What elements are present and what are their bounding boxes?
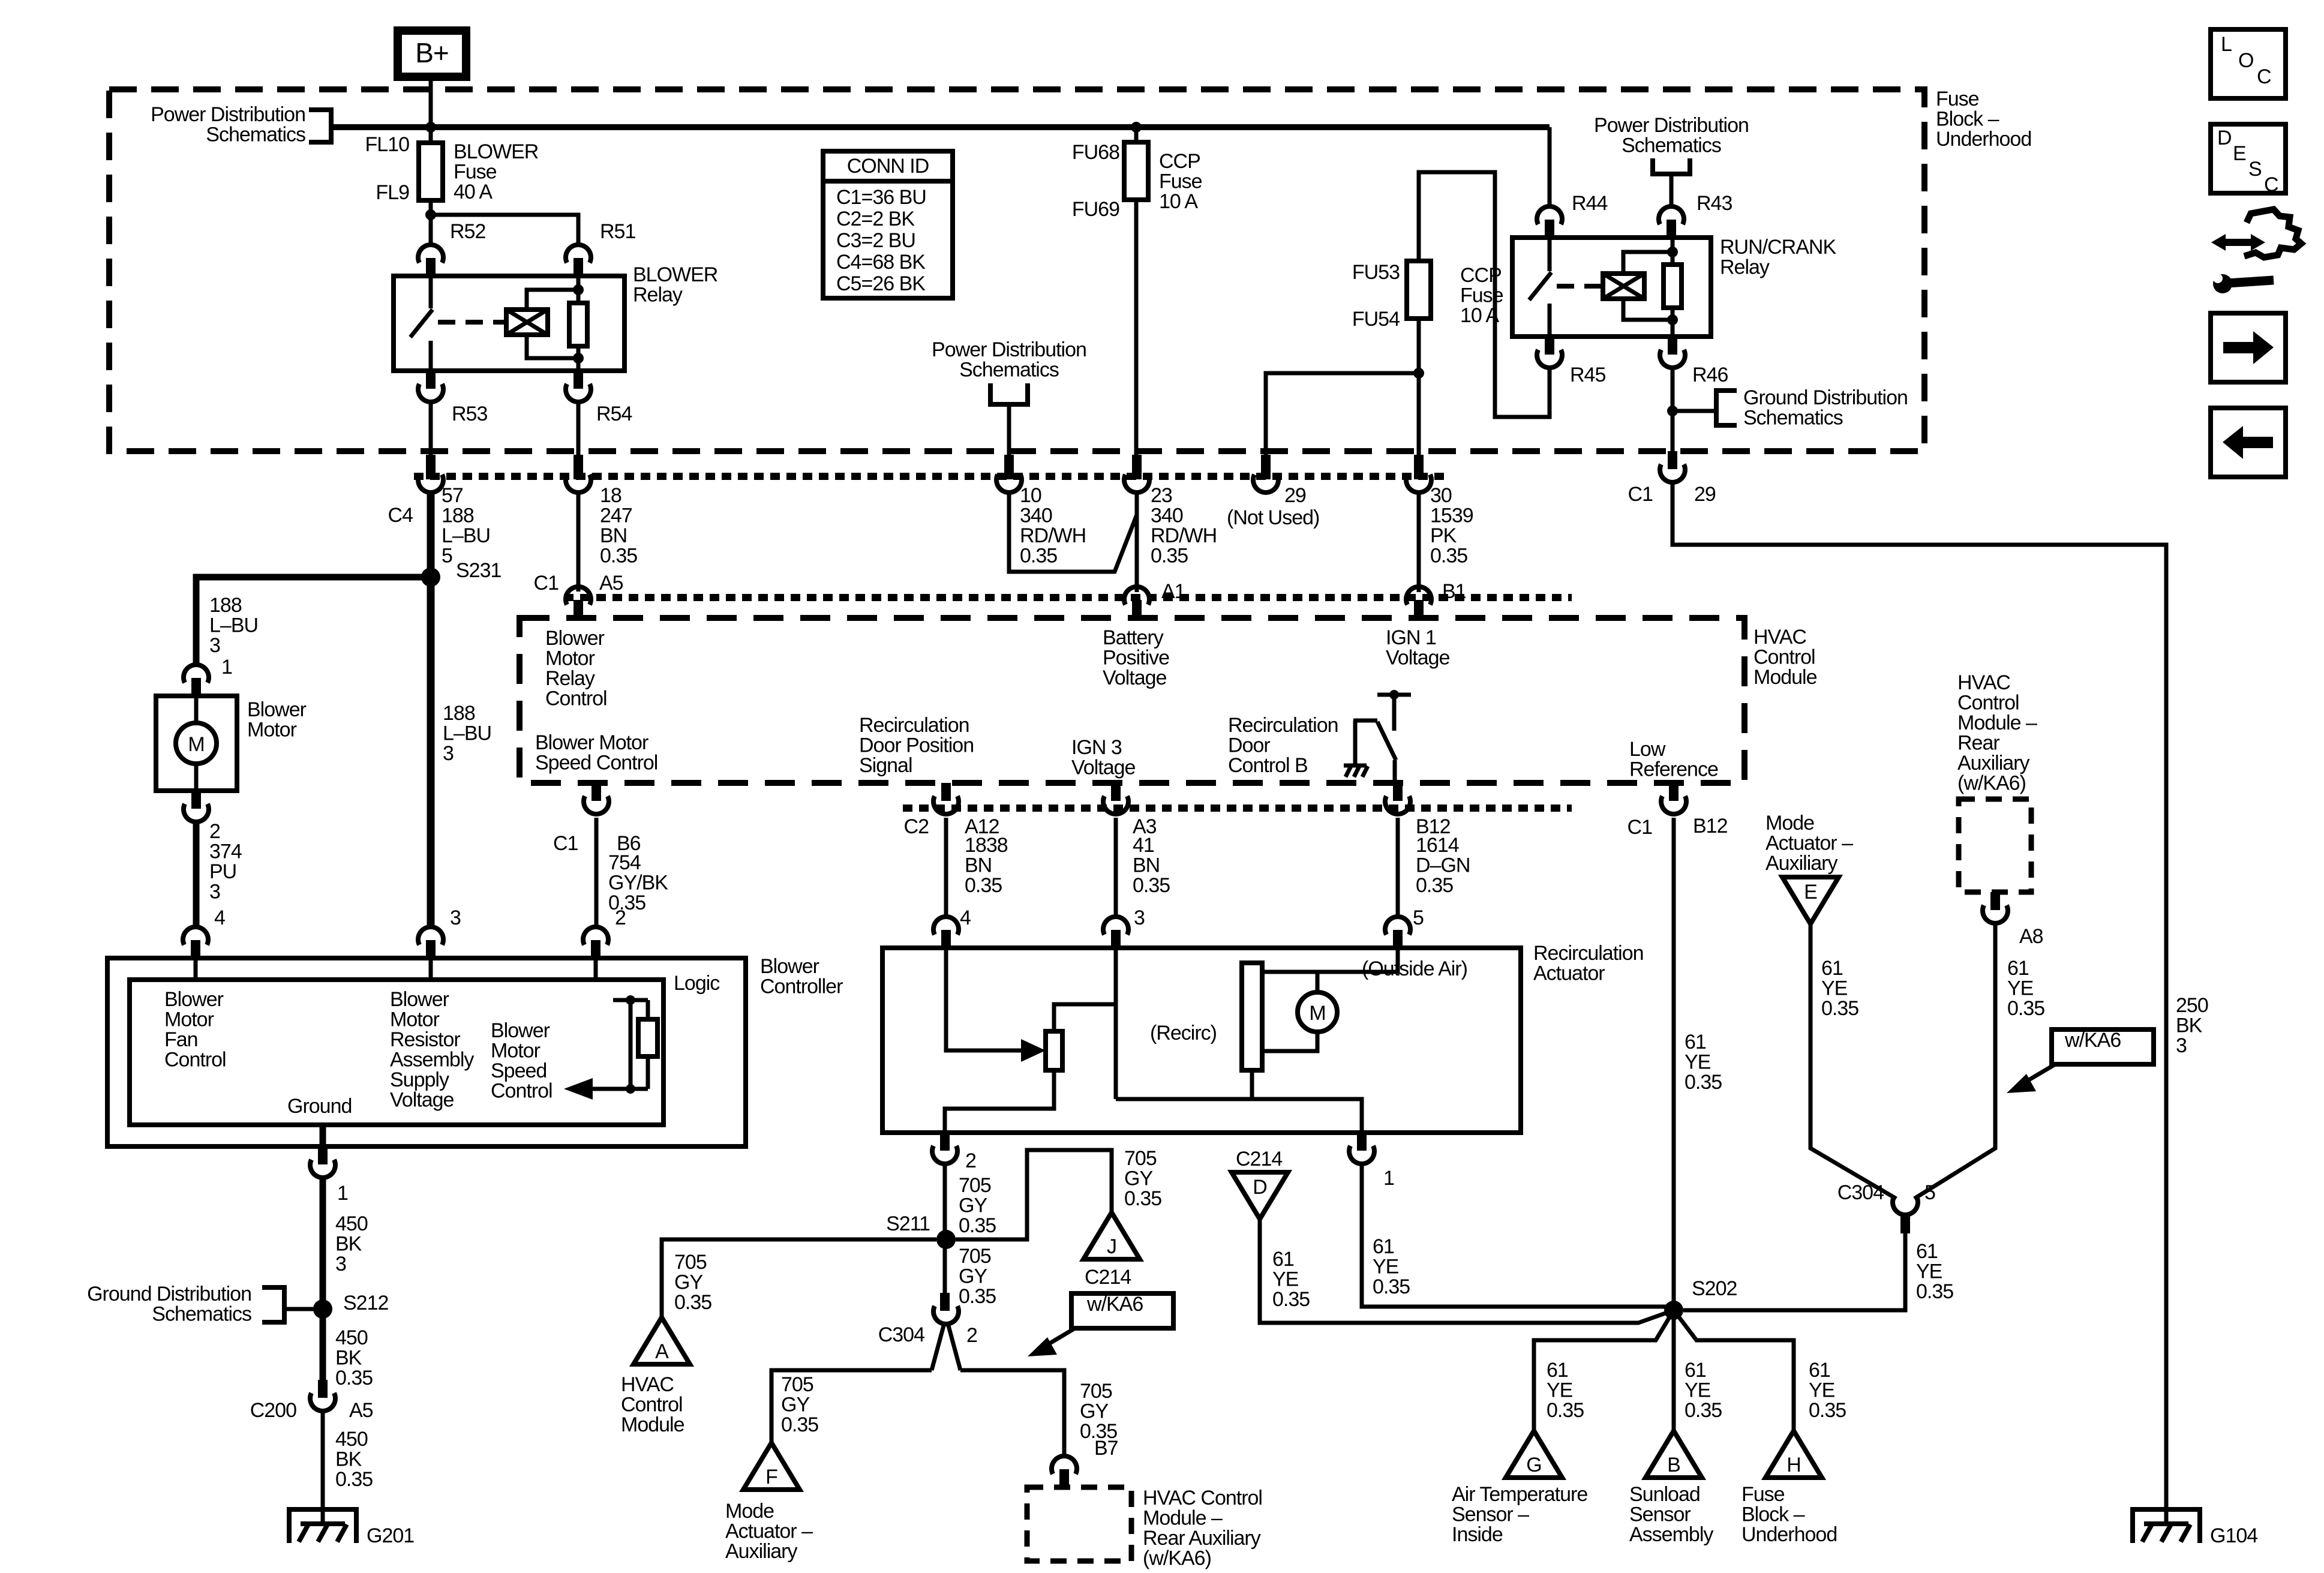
CONN ID table: [823, 151, 953, 298]
svg-text:S212: S212: [343, 1292, 388, 1314]
svg-text:1: 1: [1383, 1167, 1394, 1190]
svg-text:G104: G104: [2210, 1524, 2257, 1547]
svg-text:0.35: 0.35: [1685, 1071, 1722, 1094]
svg-text:R53: R53: [452, 403, 487, 425]
connector C1 pin 29 and 250 BK 3 to G104: [1668, 451, 1677, 469]
recirculation door control B driver switch: [1377, 693, 1411, 697]
junction switch T-bar: [1389, 690, 1399, 700]
svg-text:Relay: Relay: [1720, 256, 1770, 279]
wire C304-5 to S202: [1683, 1233, 1905, 1310]
svg-text:BK: BK: [2176, 1014, 2203, 1037]
sidebar icon LOC: [2211, 29, 2286, 98]
connector C200 A5: [318, 1380, 328, 1398]
svg-text:CCP: CCP: [1460, 264, 1502, 287]
junction blower fuse split: [425, 209, 436, 220]
svg-text:340: 340: [1020, 505, 1052, 527]
blower motor: [156, 696, 237, 791]
svg-text:Schematics: Schematics: [206, 124, 305, 146]
connector C2 B12: [1393, 783, 1403, 801]
svg-text:29: 29: [1694, 483, 1716, 506]
svg-text:61: 61: [1821, 957, 1843, 980]
wire to pin 29: [1266, 373, 1419, 455]
connector recirc pin 1: [1357, 1133, 1367, 1151]
svg-text:R45: R45: [1570, 364, 1605, 386]
svg-text:Supply: Supply: [390, 1068, 449, 1091]
svg-text:RD/WH: RD/WH: [1151, 524, 1217, 547]
connector R45: [1545, 337, 1554, 355]
ground G201: [289, 1509, 356, 1543]
svg-text:Blower: Blower: [760, 955, 819, 978]
svg-text:705: 705: [781, 1373, 813, 1396]
svg-text:Control: Control: [621, 1394, 683, 1416]
svg-text:2: 2: [209, 820, 220, 843]
connector R51: [566, 245, 591, 263]
connector controller pin 3: [418, 927, 443, 945]
svg-text:Schematics: Schematics: [959, 359, 1059, 382]
svg-text:Actuator –: Actuator –: [725, 1520, 813, 1543]
connector HVAC B1: [1406, 587, 1431, 605]
svg-text:705: 705: [1124, 1147, 1157, 1170]
connector C2 pin 30: [1414, 455, 1424, 479]
svg-text:(Outside Air): (Outside Air): [1362, 957, 1467, 980]
svg-text:(Not Used): (Not Used): [1227, 506, 1319, 529]
svg-text:61: 61: [1916, 1240, 1938, 1263]
svg-text:Rear Auxiliary: Rear Auxiliary: [1143, 1527, 1261, 1550]
wire C304-2 to B7: [960, 1370, 1064, 1456]
svg-text:BK: BK: [335, 1448, 362, 1471]
HVAC control module rear auxiliary dashed box (bottom): [1027, 1487, 1131, 1561]
w/KA6 flag (left): [1071, 1293, 1173, 1328]
svg-text:5: 5: [1413, 906, 1424, 929]
svg-text:0.35: 0.35: [1809, 1399, 1846, 1422]
connector C2 pin 10: [1004, 455, 1014, 479]
svg-text:Sensor –: Sensor –: [1452, 1503, 1529, 1526]
svg-text:3: 3: [443, 742, 454, 765]
svg-text:0.35: 0.35: [1430, 545, 1467, 568]
svg-text:Relay: Relay: [633, 284, 683, 307]
svg-text:10 A: 10 A: [1460, 304, 1499, 327]
wire pin1 to S202: [1362, 1164, 1674, 1307]
run/crank relay switch: [1548, 238, 1552, 271]
RUN/CRANK relay: [1512, 238, 1711, 337]
svg-text:23: 23: [1151, 484, 1172, 507]
svg-text:705: 705: [1080, 1380, 1112, 1403]
wire S231 to blower motor: [196, 577, 431, 666]
svg-text:450: 450: [335, 1428, 368, 1451]
connector controller pin 2: [583, 927, 608, 945]
svg-text:Assembly: Assembly: [390, 1049, 474, 1071]
off-page connector D: [1232, 1172, 1288, 1219]
junction relay coil top: [573, 284, 584, 295]
wire 450 BK 0.35 to G201: [321, 1411, 325, 1524]
svg-text:188: 188: [442, 505, 474, 527]
svg-text:340: 340: [1151, 505, 1183, 527]
junction relay coil bottom: [573, 353, 584, 364]
svg-text:PU: PU: [209, 860, 236, 883]
svg-text:1539: 1539: [1430, 505, 1473, 527]
connector R53: [426, 371, 436, 389]
svg-text:S211: S211: [886, 1212, 930, 1235]
svg-text:Control: Control: [1753, 646, 1815, 669]
svg-text:188: 188: [209, 594, 242, 617]
svg-text:Auxiliary: Auxiliary: [1765, 852, 1837, 875]
connector C2 A12: [941, 783, 951, 801]
recirc potentiometer: [1046, 1031, 1062, 1070]
connector recirc pin 2: [940, 1133, 950, 1151]
svg-text:GY: GY: [781, 1394, 809, 1416]
run/crank relay coil drive dashed link: [1557, 284, 1603, 289]
svg-text:18: 18: [600, 484, 621, 507]
wire S211 to A: [662, 1239, 936, 1317]
off-page connector G: [1506, 1431, 1562, 1478]
svg-text:2: 2: [615, 906, 626, 929]
svg-text:Voltage: Voltage: [1071, 757, 1136, 779]
svg-text:0.35: 0.35: [965, 874, 1002, 897]
off-page connector H: [1765, 1431, 1822, 1478]
svg-text:FU54: FU54: [1352, 308, 1400, 331]
svg-text:R52: R52: [450, 220, 485, 243]
svg-text:BN: BN: [965, 854, 992, 877]
svg-text:R46: R46: [1692, 364, 1728, 386]
svg-text:RUN/CRANK: RUN/CRANK: [1720, 236, 1836, 259]
fuse block underhood dashed box: [109, 89, 1924, 451]
svg-text:R51: R51: [600, 220, 635, 243]
svg-text:GY: GY: [959, 1265, 987, 1288]
svg-text:Blower: Blower: [247, 698, 307, 721]
splice S212: [313, 1299, 332, 1319]
wire C304-2 to F: [771, 1370, 932, 1443]
svg-text:BN: BN: [1133, 854, 1160, 877]
svg-text:R54: R54: [596, 403, 632, 425]
svg-text:C200: C200: [250, 1399, 296, 1422]
svg-text:1838: 1838: [965, 834, 1008, 857]
connector row C4/C1/C2 (fuse block bottom, dotted): [414, 473, 1446, 480]
ground G104: [2133, 1509, 2200, 1543]
svg-text:Control: Control: [1957, 692, 2019, 715]
svg-text:Block –: Block –: [1936, 108, 1999, 131]
connector row HVAC C1 (dotted): [564, 594, 1572, 601]
svg-text:Fuse: Fuse: [1742, 1483, 1785, 1506]
svg-text:29: 29: [1284, 484, 1306, 507]
fuse BLOWER Fuse 40A (FL10/FL9): [419, 143, 443, 200]
svg-text:0.35: 0.35: [1821, 997, 1858, 1020]
controller ground pin: [320, 1125, 326, 1146]
svg-text:L–BU: L–BU: [442, 524, 490, 547]
svg-text:Speed: Speed: [491, 1059, 547, 1082]
svg-text:A5: A5: [349, 1399, 373, 1422]
svg-text:Reference: Reference: [1629, 758, 1718, 781]
splice S202: [1664, 1301, 1683, 1320]
svg-text:A8: A8: [2019, 925, 2043, 948]
wire B+ to bus: [429, 77, 433, 127]
svg-text:B1: B1: [1442, 580, 1466, 603]
wire power bus: [331, 124, 1550, 130]
blower relay: [394, 276, 624, 371]
run/crank relay coil/resistor links: [1623, 252, 1673, 320]
svg-text:C2=2 BK: C2=2 BK: [836, 208, 915, 230]
svg-text:1614: 1614: [1416, 834, 1459, 857]
svg-text:Air Temperature: Air Temperature: [1452, 1483, 1587, 1506]
wire 57 trunk to controller pin 3: [427, 492, 435, 927]
svg-text:Fuse: Fuse: [1159, 170, 1202, 193]
svg-text:YE: YE: [1685, 1379, 1711, 1402]
wire A12 to recirc pin 4: [944, 818, 948, 917]
fuse CCP Fuse 10A (FU53/FU54): [1407, 261, 1431, 319]
connector row HVAC C2/C1 bottom (dotted): [903, 804, 1572, 812]
connector HVAC A1: [1124, 587, 1149, 605]
svg-text:L–BU: L–BU: [443, 722, 491, 745]
svg-text:0.35: 0.35: [674, 1291, 711, 1314]
svg-text:A: A: [655, 1340, 669, 1363]
off-page connector J: [1083, 1212, 1140, 1259]
svg-text:4: 4: [960, 906, 971, 929]
svg-text:S231: S231: [456, 559, 501, 582]
svg-text:YE: YE: [1685, 1051, 1711, 1074]
svg-text:Auxiliary: Auxiliary: [1957, 752, 2029, 775]
svg-text:(w/KA6): (w/KA6): [1957, 772, 2026, 795]
connector C304 pin 2 (splitting Y): [940, 1293, 950, 1311]
wire pin2 to S211/C304: [943, 1164, 947, 1293]
blower relay coil/resistor links: [527, 290, 578, 358]
svg-text:Recirculation: Recirculation: [1533, 942, 1644, 965]
svg-text:705: 705: [959, 1174, 991, 1197]
svg-text:0.35: 0.35: [1916, 1280, 1953, 1303]
wire A3 to recirc pin 3: [1114, 818, 1118, 917]
svg-text:3: 3: [335, 1253, 346, 1275]
wire branch to R51: [431, 215, 578, 245]
svg-text:Control: Control: [164, 1049, 226, 1071]
HVAC control module dashed box: [520, 618, 1744, 783]
connector blower motor pin 2: [191, 791, 201, 809]
connector blower motor pin 1: [184, 665, 209, 683]
wire 30 to B1: [1417, 492, 1421, 592]
svg-text:C1=36 BU: C1=36 BU: [836, 186, 926, 209]
run/crank relay coil: [1603, 274, 1644, 299]
svg-text:0.35: 0.35: [1685, 1399, 1722, 1422]
svg-text:O: O: [2238, 49, 2253, 72]
blower relay switch: [429, 276, 433, 308]
svg-text:FL9: FL9: [376, 181, 409, 204]
svg-text:61: 61: [2007, 957, 2029, 980]
svg-text:247: 247: [600, 505, 632, 527]
svg-text:E: E: [1804, 881, 1817, 903]
svg-text:5: 5: [1924, 1181, 1935, 1204]
svg-text:M: M: [188, 733, 204, 756]
svg-text:C214: C214: [1236, 1148, 1282, 1170]
svg-text:FU68: FU68: [1072, 141, 1119, 164]
switch blade: [1377, 722, 1396, 760]
svg-text:2: 2: [965, 1149, 976, 1172]
svg-text:B7: B7: [1094, 1437, 1118, 1460]
svg-text:Signal: Signal: [859, 754, 912, 777]
svg-text:Ground: Ground: [287, 1095, 352, 1118]
svg-text:BK: BK: [335, 1233, 362, 1256]
svg-text:30: 30: [1430, 484, 1452, 507]
svg-text:H: H: [1786, 1454, 1801, 1476]
bracket Power Distribution Schematics (right): [1653, 158, 1690, 174]
svg-text:G201: G201: [367, 1524, 414, 1547]
svg-text:R44: R44: [1572, 192, 1607, 215]
svg-text:S: S: [2248, 158, 2262, 181]
svg-text:Fuse: Fuse: [1460, 284, 1503, 307]
svg-text:YE: YE: [1272, 1268, 1299, 1291]
wire B6 to controller pin 2: [594, 818, 599, 927]
svg-text:(w/KA6): (w/KA6): [1143, 1547, 1211, 1570]
wire 18 to A5: [577, 492, 581, 592]
svg-text:Recirculation: Recirculation: [1228, 714, 1338, 737]
svg-text:BLOWER: BLOWER: [454, 140, 538, 163]
svg-text:41: 41: [1133, 834, 1154, 857]
svg-text:Positive: Positive: [1103, 647, 1169, 670]
svg-text:Power Distribution: Power Distribution: [932, 338, 1086, 361]
svg-text:Schematics: Schematics: [1622, 134, 1721, 157]
connector C1 pin 18: [574, 455, 583, 479]
off-page connector E: [1782, 877, 1839, 924]
svg-text:GY: GY: [959, 1194, 987, 1217]
svg-text:C1: C1: [534, 572, 559, 595]
svg-text:Sensor: Sensor: [1629, 1503, 1691, 1526]
wire tap to bracket: [1673, 409, 1714, 413]
svg-text:61: 61: [1373, 1235, 1394, 1258]
svg-text:Schematics: Schematics: [1743, 407, 1843, 430]
recirc motor M: [1262, 948, 1398, 972]
svg-text:G: G: [1526, 1454, 1541, 1476]
svg-text:Motor: Motor: [545, 647, 595, 670]
svg-text:C4: C4: [388, 504, 413, 527]
svg-text:Fuse: Fuse: [454, 161, 497, 184]
svg-text:Control: Control: [491, 1080, 553, 1103]
wire S211 to J: [956, 1150, 1112, 1239]
wire B12 to recirc pin 5: [1396, 818, 1400, 917]
connector R44: [1537, 206, 1562, 224]
svg-text:Logic: Logic: [674, 972, 720, 995]
svg-text:Blower: Blower: [545, 627, 605, 650]
wire FU69 to pin 23: [1134, 200, 1139, 455]
wire S202 to H: [1674, 1310, 1794, 1431]
svg-text:250: 250: [2176, 994, 2208, 1017]
recirc wiper feed + arrow: [946, 948, 1026, 1050]
svg-text:C1: C1: [553, 832, 578, 855]
svg-text:Control B: Control B: [1228, 754, 1308, 777]
svg-text:HVAC: HVAC: [1957, 671, 2010, 694]
svg-text:5: 5: [442, 545, 452, 568]
svg-text:CONN ID: CONN ID: [847, 155, 929, 178]
svg-text:Relay: Relay: [545, 667, 595, 690]
svg-text:0.35: 0.35: [1151, 545, 1188, 568]
blower relay resistor: [577, 276, 581, 371]
wire D to S202: [1260, 1219, 1674, 1323]
wire 250 BK 3 to G104: [1673, 482, 2166, 1524]
sidebar icon back arrow: [2211, 408, 2286, 477]
bracket Power Distribution Schematics (left): [309, 110, 331, 142]
svg-text:J: J: [1107, 1235, 1116, 1258]
svg-text:0.35: 0.35: [2007, 997, 2044, 1020]
w/KA6 flag (right): [2052, 1029, 2154, 1064]
svg-text:L–BU: L–BU: [209, 614, 258, 637]
connector C4 pin 57: [426, 455, 436, 479]
svg-text:2: 2: [966, 1324, 977, 1347]
connector R46: [1668, 337, 1677, 355]
svg-text:C1: C1: [1628, 816, 1653, 839]
connector R54: [574, 371, 583, 389]
wire R45 to FU53: [1419, 172, 1550, 417]
svg-text:Inside: Inside: [1452, 1523, 1503, 1546]
junction R46 tap: [1667, 406, 1678, 416]
svg-text:61: 61: [1809, 1359, 1830, 1382]
pot low end to pin 2: [945, 1070, 1054, 1133]
wire 10 merge Y: [1009, 492, 1137, 572]
svg-text:Voltage: Voltage: [390, 1089, 454, 1112]
svg-text:C304: C304: [1837, 1181, 1884, 1204]
svg-text:YE: YE: [2007, 977, 2034, 1000]
svg-text:Ground Distribution: Ground Distribution: [87, 1283, 251, 1305]
svg-text:YE: YE: [1547, 1379, 1573, 1402]
connector recirc pin 4 (A12): [933, 917, 959, 935]
recirculation actuator box: [882, 948, 1521, 1133]
svg-text:0.35: 0.35: [1547, 1399, 1584, 1422]
internal chassis ground: [1344, 764, 1367, 768]
svg-text:0.35: 0.35: [959, 1285, 996, 1308]
off-page connector F: [743, 1443, 800, 1490]
junction FU54 split: [1413, 368, 1424, 379]
wire 23 to A1: [1135, 492, 1139, 592]
connector R43: [1659, 206, 1684, 224]
svg-text:705: 705: [674, 1251, 707, 1274]
wire bus to R44: [1548, 127, 1552, 207]
junction logic T-bar: [626, 995, 635, 1005]
svg-text:FU53: FU53: [1352, 261, 1400, 284]
svg-text:GY/BK: GY/BK: [608, 872, 668, 894]
door/wiper return to pin 1: [1250, 1070, 1254, 1099]
svg-text:Voltage: Voltage: [1386, 647, 1450, 670]
svg-text:IGN 1: IGN 1: [1386, 626, 1436, 649]
wire to R52: [429, 215, 433, 245]
junction bus/blower-fuse: [425, 122, 436, 133]
svg-text:0.35: 0.35: [608, 891, 645, 914]
svg-text:Blower: Blower: [164, 988, 224, 1011]
splice S231: [421, 568, 440, 587]
svg-text:w/KA6: w/KA6: [1086, 1293, 1143, 1316]
svg-text:FL10: FL10: [365, 133, 410, 156]
svg-text:A1: A1: [1161, 580, 1185, 603]
svg-text:1: 1: [337, 1182, 348, 1205]
blower relay coil drive dashed link: [438, 320, 506, 325]
svg-text:Blower: Blower: [491, 1019, 550, 1042]
svg-text:Module: Module: [621, 1413, 684, 1436]
svg-text:D: D: [2217, 127, 2232, 149]
svg-text:C3=2 BU: C3=2 BU: [836, 229, 915, 252]
svg-text:HVAC: HVAC: [621, 1373, 674, 1396]
svg-text:Control: Control: [545, 688, 607, 710]
svg-text:BN: BN: [600, 524, 627, 547]
connector C1 B6: [591, 783, 601, 801]
junction rc coil top: [1667, 247, 1678, 257]
svg-text:Schematics: Schematics: [152, 1303, 251, 1326]
svg-text:Battery: Battery: [1103, 626, 1164, 649]
svg-text:HVAC Control: HVAC Control: [1143, 1487, 1262, 1509]
wire bracket to R43: [1670, 174, 1674, 207]
svg-text:M: M: [1309, 1002, 1325, 1025]
svg-text:D–GN: D–GN: [1416, 854, 1470, 877]
junction rc coil bottom: [1667, 314, 1678, 325]
wire E to C304-5: [1810, 924, 1896, 1199]
svg-text:IGN 3: IGN 3: [1071, 736, 1122, 759]
svg-text:0.35: 0.35: [959, 1214, 996, 1237]
svg-text:450: 450: [335, 1326, 368, 1349]
svg-text:B: B: [1667, 1454, 1680, 1476]
svg-text:GY: GY: [1080, 1400, 1108, 1423]
wire FL9 to split: [429, 200, 433, 215]
